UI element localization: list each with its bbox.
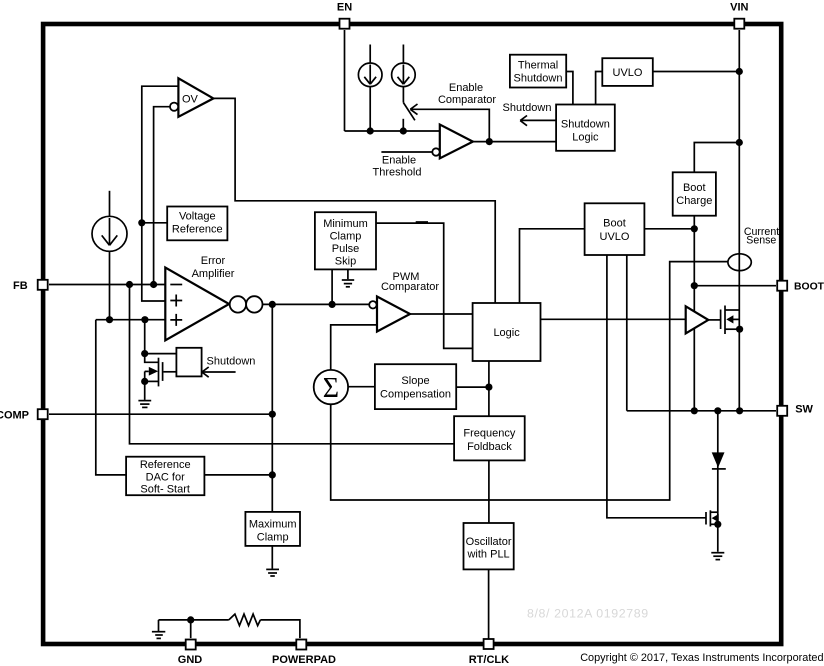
wire EN pin drop <box>344 30 346 131</box>
wire thermal shutdown to shutdown logic <box>566 72 573 105</box>
wire error amp output to PWM comparator <box>263 303 370 305</box>
transistor Q1 high-side MOSFET <box>708 306 739 335</box>
wire VIN to boot charge <box>694 143 739 173</box>
wire EN input bus to enable comparator <box>345 130 440 132</box>
node voltage reference tap <box>138 219 145 226</box>
error amp plus sign 2 <box>170 314 182 326</box>
svg-text:Maximum: Maximum <box>249 519 297 531</box>
wire summer to slope compensation <box>348 386 375 388</box>
svg-text:RT/CLK: RT/CLK <box>469 654 509 666</box>
box Thermal Shutdown <box>510 55 566 88</box>
svg-text:FB: FB <box>13 280 28 292</box>
wire shutdown output arrow <box>520 116 556 126</box>
pin EN <box>340 19 350 29</box>
wire FB branch down to frequency foldback <box>130 285 455 444</box>
svg-text:Shutdown: Shutdown <box>503 102 552 114</box>
current sense element <box>728 254 751 271</box>
wire COMP vertical (comp / DAC / max clamp) <box>271 304 273 512</box>
wire frequency foldback to oscillator <box>488 460 490 523</box>
summer sigma <box>314 370 348 404</box>
svg-text:COMP: COMP <box>0 410 29 422</box>
wire summer bottom to current sense <box>331 262 728 500</box>
svg-text:Pulse: Pulse <box>332 243 360 255</box>
node FB to OV branch <box>150 281 157 288</box>
node SW boot refresh <box>691 407 698 414</box>
pin POWERPAD <box>296 640 306 650</box>
svg-text:Charge: Charge <box>676 195 712 207</box>
svg-text:Boot: Boot <box>603 217 626 229</box>
svg-text:Minimum: Minimum <box>323 218 368 230</box>
wire UVLO to VIN rail <box>653 71 740 73</box>
pin GND <box>186 640 196 650</box>
wire boot UVLO to low-side gate <box>607 255 706 518</box>
node comparator output <box>486 138 493 145</box>
wire VIN rail vertical <box>738 30 740 411</box>
current source I1 (enable pull-up) <box>358 45 382 132</box>
svg-text:Frequency: Frequency <box>463 427 515 439</box>
svg-text:Enable: Enable <box>449 82 483 94</box>
wire oscillator to RT/CLK pin <box>488 569 490 640</box>
svg-text:Logic: Logic <box>493 327 520 339</box>
svg-text:Skip: Skip <box>335 256 356 268</box>
svg-text:with PLL: with PLL <box>466 549 509 561</box>
svg-text:Compensation: Compensation <box>380 389 451 401</box>
box Slope Compensation <box>375 364 456 409</box>
svg-text:Reference: Reference <box>172 224 223 236</box>
wire boot UVLO to SW <box>626 255 628 411</box>
node COMP <box>269 411 276 418</box>
wire PWM lower input from summer <box>331 325 377 369</box>
node DAC output <box>269 471 276 478</box>
ground (maximum clamp) <box>266 546 279 576</box>
svg-text:Clamp: Clamp <box>257 532 289 544</box>
wire FB input line <box>49 284 165 286</box>
node COMP branch <box>269 301 276 308</box>
pin FB <box>38 280 48 290</box>
node Q2 source <box>714 521 721 528</box>
box Minimum Clamp Pulse Skip <box>315 212 376 269</box>
wire boot UVLO right to boot charge net <box>644 228 694 230</box>
wire DAC output line <box>204 474 272 476</box>
svg-text:Clamp: Clamp <box>330 231 362 243</box>
error amp minus sign <box>170 284 182 286</box>
svg-text:Shutdown: Shutdown <box>561 118 610 130</box>
node bootUVLO-bootcharge <box>691 225 698 232</box>
op-amp OV comparator <box>178 78 213 117</box>
box Voltage Reference <box>167 207 227 241</box>
ground (shutdown MOSFET) <box>138 401 151 408</box>
wire comparator output to shutdown logic <box>473 141 556 143</box>
current source I2 (hysteresis, switched) <box>392 45 416 103</box>
node minimum clamp tap <box>329 301 336 308</box>
ground (min clamp) <box>342 269 354 286</box>
svg-text:UVLO: UVLO <box>600 231 630 243</box>
box Reference DAC for Soft-Start <box>126 457 204 496</box>
box Boot UVLO <box>585 203 645 255</box>
switch arm of I2 <box>403 103 415 121</box>
svg-text:Shutdown: Shutdown <box>207 356 256 368</box>
svg-text:Amplifier: Amplifier <box>192 268 235 280</box>
svg-text:Reference: Reference <box>140 459 191 471</box>
op-amp high side gate driver <box>686 306 709 333</box>
node Q1 source <box>736 326 743 333</box>
box Logic <box>473 303 541 361</box>
wire +2 input down to reference DAC <box>96 320 126 475</box>
svg-text:Σ: Σ <box>323 373 339 404</box>
wire min clamp output to logic <box>376 223 473 348</box>
wire logic output to gate driver <box>541 318 686 320</box>
node dot I1 to EN bus <box>367 127 374 134</box>
svg-text:VIN: VIN <box>730 1 748 13</box>
svg-text:Logic: Logic <box>572 131 599 143</box>
wire min clamp to PWM + line <box>331 269 333 304</box>
svg-text:Error: Error <box>201 255 226 267</box>
shutdown MOSFET Q3 (error amp clamp) <box>145 320 177 400</box>
wire hysteresis control arrow from comparator output <box>410 104 489 142</box>
svg-text:DAC for: DAC for <box>146 471 185 483</box>
wire FB branch up to OV inverting input <box>154 107 170 285</box>
pin SW <box>777 406 787 416</box>
svg-text:Comparator: Comparator <box>438 94 496 106</box>
svg-text:Copyright © 2017, Texas Instru: Copyright © 2017, Texas Instruments Inco… <box>580 652 823 664</box>
op-amp error amplifier <box>165 268 229 341</box>
svg-text:EN: EN <box>337 1 352 13</box>
node FB to frequency foldback branch <box>126 281 133 288</box>
error amp output buffer circle 1 <box>230 296 246 312</box>
PWM inverting bubble <box>369 301 376 308</box>
box Shutdown Logic <box>556 105 615 151</box>
op-amp enable comparator <box>440 125 473 159</box>
node shutdown MOSFET source <box>141 378 148 385</box>
svg-text:Boot: Boot <box>683 182 706 194</box>
node dot I2 switch to EN bus <box>400 127 407 134</box>
node VIN-UVLO <box>736 68 743 75</box>
wire COMP pin line <box>49 413 272 415</box>
svg-text:GND: GND <box>178 654 203 666</box>
node SW diode <box>714 407 721 414</box>
box Maximum Clamp <box>245 512 300 546</box>
node shutdown MOSFET drain tap <box>141 350 148 357</box>
wire voltage reference net (OV top input, error amp + input) <box>142 86 179 301</box>
node I3 to +2 input <box>106 316 113 323</box>
svg-text:BOOT: BOOT <box>794 281 824 292</box>
box Oscillator with PLL <box>464 523 514 569</box>
wire SW to low-side chain <box>717 411 719 552</box>
wire logic bottom vertical <box>488 361 490 416</box>
svg-text:OV: OV <box>182 94 199 106</box>
inverting input bubble <box>432 148 439 155</box>
pin BOOT <box>777 281 787 291</box>
wire shutdown gate arrow <box>202 367 236 377</box>
switch stub to EN bus <box>402 119 404 131</box>
error amp output buffer circle 2 <box>246 296 262 312</box>
current source I3 (soft start charge) <box>92 191 127 320</box>
box Frequency Foldback <box>454 416 525 460</box>
svg-text:Comparator: Comparator <box>381 281 439 293</box>
wire to voltage reference box <box>142 222 167 224</box>
wire enable threshold input <box>381 151 432 153</box>
wire BOOT line to pin <box>694 285 776 287</box>
wire slope compensation to logic net <box>456 386 489 388</box>
error amp plus sign 1 <box>170 295 182 307</box>
svg-text:Thermal: Thermal <box>518 60 558 72</box>
transistor Q2 low-side MOSFET <box>706 510 719 526</box>
node shutdown MOSFET branch <box>141 316 148 323</box>
node slope-logic <box>485 384 492 391</box>
svg-text:Enable: Enable <box>382 155 416 167</box>
svg-text:8/8/ 2012A 0192789: 8/8/ 2012A 0192789 <box>527 607 649 621</box>
wire OV comparator output to logic <box>213 98 495 303</box>
wire UVLO to shutdown logic <box>596 72 603 105</box>
pin COMP <box>38 409 48 419</box>
svg-text:UVLO: UVLO <box>613 67 643 79</box>
svg-text:Oscillator: Oscillator <box>466 536 512 548</box>
node GND tap <box>187 616 194 623</box>
svg-text:Voltage: Voltage <box>179 211 216 223</box>
wire boot charge down to SW <box>693 216 695 411</box>
wire boot UVLO left to logic <box>520 229 585 303</box>
svg-text:SW: SW <box>795 404 813 416</box>
ground (GND pin) <box>152 620 165 639</box>
node VIN-bootcharge <box>736 139 743 146</box>
wire SW line <box>627 410 776 412</box>
op-amp PWM comparator <box>377 297 410 332</box>
svg-text:Shutdown: Shutdown <box>514 73 563 85</box>
svg-text:Sense: Sense <box>746 235 776 247</box>
node SW Q1 source <box>736 407 743 414</box>
box shutdown gate driver <box>176 348 201 377</box>
svg-text:Foldback: Foldback <box>467 441 512 453</box>
box Boot Charge <box>673 172 716 215</box>
svg-text:POWERPAD: POWERPAD <box>272 654 336 666</box>
svg-text:Soft- Start: Soft- Start <box>140 484 190 496</box>
OV inverting bubble <box>170 103 178 111</box>
wire GND net with resistor to POWERPAD <box>159 614 300 638</box>
node BOOT junction <box>691 282 698 289</box>
svg-text:Slope: Slope <box>401 375 429 387</box>
pin VIN <box>734 19 744 29</box>
ground (low-side MOSFET) <box>711 553 724 560</box>
wire error amp soft-start + input line <box>96 319 166 321</box>
svg-text:Threshold: Threshold <box>373 167 422 179</box>
wire PWM output to logic <box>410 313 473 315</box>
diode D1 <box>712 452 726 469</box>
box UVLO <box>602 58 653 86</box>
pin RT/CLK <box>484 639 494 649</box>
